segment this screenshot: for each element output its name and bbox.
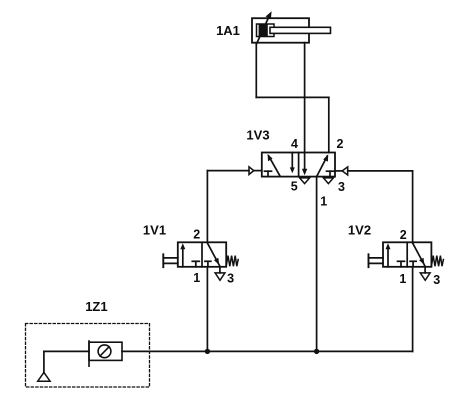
svg-text:5: 5 <box>291 179 298 193</box>
valve 1V2 body <box>383 242 431 266</box>
valve 1V1 exhaust stub and triangle port 3 <box>215 267 225 281</box>
svg-text:4: 4 <box>291 137 298 151</box>
cylinder 1A1 piston rod <box>270 27 331 33</box>
wire 1V1 port 1 down to manifold <box>206 267 208 352</box>
junction node at 1V1 supply <box>205 349 210 354</box>
valve 1V2 return spring <box>431 256 443 267</box>
svg-text:1V3: 1V3 <box>246 128 269 143</box>
wire left pilot down to 1V1 port 2 <box>206 171 208 243</box>
valve 1V1 right box passage 2-3 with arrow <box>208 243 221 266</box>
valve 1V1 left box passage arrow 1-2 <box>180 243 185 266</box>
valve 1V3 right box passage arrow 1-2 <box>317 154 329 176</box>
service unit simplified symbol <box>89 341 122 366</box>
wire cylinder left port down <box>255 43 257 98</box>
svg-text:3: 3 <box>338 180 345 194</box>
svg-text:1: 1 <box>320 194 327 208</box>
valve 1V3 exhaust triangle port 3 <box>323 178 333 184</box>
wire horizontal jog <box>256 96 329 98</box>
wire cylinder right port to valve port 4 <box>304 43 306 153</box>
valve 1V1 right box blocked port T <box>205 261 211 267</box>
junction node at 1V3 supply <box>314 349 319 354</box>
valve 1V3 right box passage arrow 4-5 <box>302 153 307 176</box>
valve 1V3 left box blocked port T <box>265 171 272 176</box>
svg-text:1A1: 1A1 <box>216 23 240 38</box>
valve 1V3 body <box>262 153 335 177</box>
svg-text:3: 3 <box>227 271 234 285</box>
svg-text:2: 2 <box>400 228 407 242</box>
compressed air source triangle <box>38 372 50 381</box>
valve 1V1 manual plunger actuator <box>163 254 178 267</box>
svg-text:3: 3 <box>433 273 440 287</box>
valve 1V2 exhaust stub and triangle port 3 <box>420 267 430 281</box>
valve 1V2 right box passage 2-3 with arrow <box>413 243 426 266</box>
manifold supply line <box>122 350 413 352</box>
cylinder 1A1 cushioning adjust arrow <box>257 11 272 43</box>
cylinder 1A1 piston assembly <box>257 24 275 37</box>
svg-text:2: 2 <box>337 137 344 151</box>
valve 1V3 right box blocked port T <box>327 171 334 176</box>
svg-text:1: 1 <box>193 271 200 285</box>
valve 1V1 body <box>178 242 226 266</box>
svg-text:1V1: 1V1 <box>143 222 166 237</box>
valve 1V1 return spring <box>226 256 238 267</box>
wire 1V2 port 1 down to manifold <box>412 267 414 352</box>
air supply unit 1Z1 dashed enclosure <box>26 324 150 388</box>
svg-text:2: 2 <box>193 227 200 241</box>
wire source to service unit <box>44 351 89 372</box>
wire down to valve port 2 <box>328 97 330 152</box>
wire right pilot down to 1V2 port 2 <box>412 171 414 242</box>
valve 1V3 left box passage arrow 1-4 <box>268 154 281 177</box>
svg-text:1: 1 <box>399 272 406 286</box>
valve 1V3 left box passage arrow 2-3 <box>290 153 295 174</box>
valve 1V2 right box blocked port T <box>410 261 416 267</box>
valve 1V2 left box passage arrow 1-2 <box>386 243 391 266</box>
valve 1V3 exhaust triangle port 5 <box>300 178 310 184</box>
cylinder 1A1 body <box>252 18 309 43</box>
valve 1V3 right pilot <box>335 167 413 175</box>
svg-text:1V2: 1V2 <box>348 222 371 237</box>
valve 1V3 left pilot <box>207 167 261 175</box>
valve 1V1 left box blocked port T <box>192 261 199 267</box>
wire 1V3 port 1 down to manifold <box>316 177 318 352</box>
valve 1V2 left box blocked port T <box>398 261 405 267</box>
valve 1V2 manual plunger actuator <box>369 254 384 267</box>
svg-text:1Z1: 1Z1 <box>85 299 107 314</box>
